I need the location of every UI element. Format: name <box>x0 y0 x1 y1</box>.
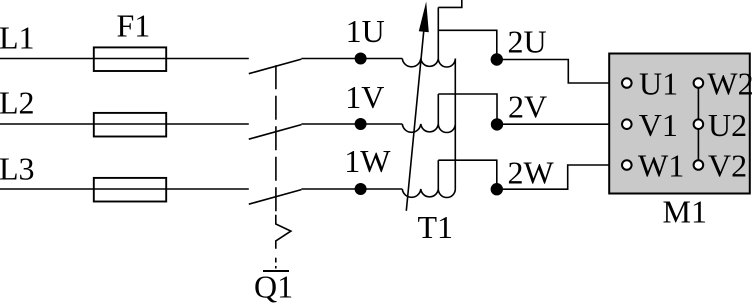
tap line to 2U <box>438 30 497 59</box>
terminal W1 <box>622 160 632 170</box>
svg-text:U2: U2 <box>708 107 747 143</box>
svg-text:W2: W2 <box>707 66 752 102</box>
switch Q1 operator chevron <box>276 215 291 249</box>
wire pole1 switch to transformer <box>301 58 402 60</box>
switch Q1 blade pole 1 <box>249 59 302 74</box>
node 2W <box>491 183 503 195</box>
node 2V <box>491 118 503 130</box>
fuse F1 (L2 pole) <box>94 113 166 137</box>
transformer tap riser phase W <box>437 160 439 189</box>
svg-text:U1: U1 <box>639 66 678 102</box>
transformer T1 winding phase V <box>402 124 455 133</box>
node 2U <box>491 53 503 65</box>
switch Q1 linkage dash below chevron <box>275 258 277 263</box>
svg-text:V2: V2 <box>708 148 747 184</box>
transformer T1 winding phase W <box>402 189 455 198</box>
switch Q1 baseline mark <box>263 270 289 272</box>
star link W2-U2-V2 <box>697 83 699 165</box>
node 1W <box>355 183 367 195</box>
fuse F1 (L1 pole) <box>94 47 166 71</box>
wiper arrow shaft <box>406 30 424 211</box>
svg-text:T1: T1 <box>418 209 454 245</box>
svg-text:1V: 1V <box>345 79 384 115</box>
tap line to 2V <box>438 94 497 124</box>
svg-text:1U: 1U <box>346 13 385 49</box>
terminal U2 <box>694 119 704 129</box>
wire L2 phase line <box>0 123 249 125</box>
motor M1 terminal box <box>609 54 750 194</box>
switch Q1 linkage dashed <box>275 65 277 214</box>
svg-text:W1: W1 <box>638 148 684 184</box>
wire L1 phase line <box>0 58 249 60</box>
svg-text:1W: 1W <box>344 143 391 179</box>
switch Q1 blade pole 2 <box>249 125 302 140</box>
terminal V1 <box>622 119 632 129</box>
fuse F1 (L3 pole) <box>94 178 166 202</box>
wiper arrow head <box>419 2 429 33</box>
top step connection <box>438 0 462 7</box>
wire L3 phase line <box>0 188 249 190</box>
terminal W2 <box>694 78 704 88</box>
transformer T1 common bus <box>454 59 456 190</box>
svg-text:Q1: Q1 <box>254 268 293 304</box>
svg-text:2V: 2V <box>508 88 547 124</box>
terminal U1 <box>622 78 632 88</box>
svg-text:L1: L1 <box>0 19 35 55</box>
wire 2V to motor <box>497 123 622 125</box>
switch Q1 linkage dash 2 <box>275 266 277 269</box>
terminal V2 <box>694 160 704 170</box>
transformer tap riser phase V <box>437 94 439 124</box>
tap line to 2W <box>438 160 497 189</box>
svg-text:V1: V1 <box>639 107 678 143</box>
svg-text:F1: F1 <box>117 8 151 44</box>
wire 2W to motor <box>497 165 622 189</box>
node 1U <box>355 53 367 65</box>
switch Q1 blade pole 3 <box>249 190 302 205</box>
wire 2U to motor <box>497 60 622 84</box>
svg-text:2U: 2U <box>508 23 547 59</box>
transformer T1 winding phase U <box>402 59 455 68</box>
svg-text:M1: M1 <box>663 193 707 229</box>
svg-text:L2: L2 <box>0 85 35 121</box>
wire pole2 switch to transformer <box>301 123 402 125</box>
transformer tap riser phase U <box>437 7 439 58</box>
svg-text:2W: 2W <box>508 154 555 190</box>
node 1V <box>355 118 367 130</box>
wire pole3 switch to transformer <box>301 188 402 190</box>
svg-text:L3: L3 <box>0 150 35 186</box>
